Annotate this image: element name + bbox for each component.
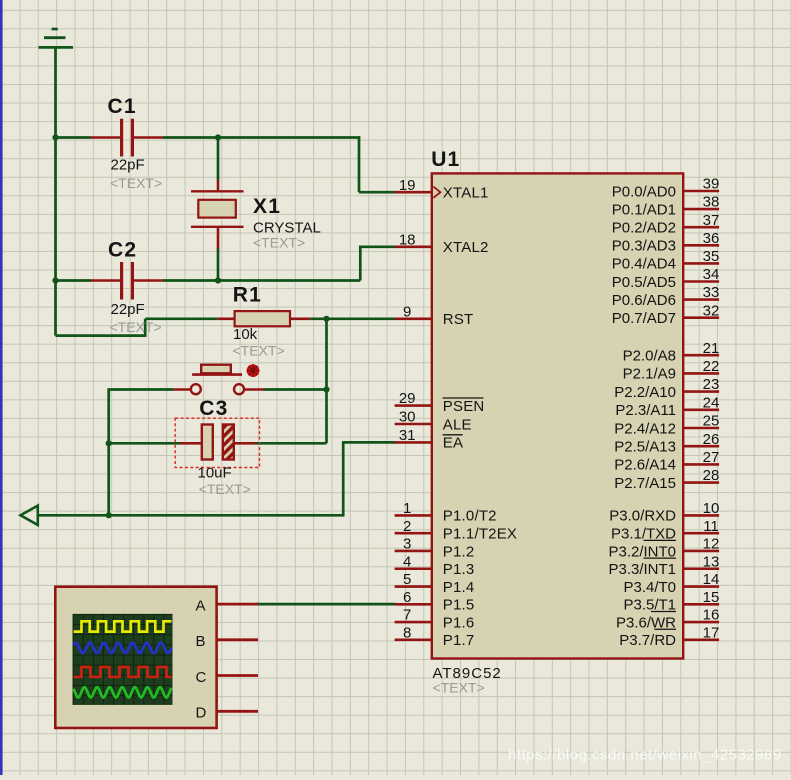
svg-text:36: 36 bbox=[703, 230, 720, 247]
capacitor C1 bbox=[91, 95, 164, 191]
svg-text:P0.1/AD1: P0.1/AD1 bbox=[612, 201, 676, 218]
pin 10 P3.0/RXD (right) bbox=[609, 500, 719, 525]
svg-text:D: D bbox=[196, 705, 207, 722]
wire: scope A to P1.5 pin 6 y=602.8 bbox=[256, 603, 396, 606]
pin 13 P3.3/INT1 (right) bbox=[608, 553, 719, 578]
svg-text:P0.7/AD7: P0.7/AD7 bbox=[612, 310, 676, 327]
svg-text:XTAL2: XTAL2 bbox=[443, 239, 489, 256]
pin 1 P1.0/T2 (left) bbox=[395, 500, 497, 525]
junction node (326.5,318.8) bbox=[323, 316, 329, 322]
pin 39 P0.0/AD0 (right) bbox=[612, 176, 720, 201]
push button bbox=[174, 364, 264, 394]
pin 14 P3.4/T0 (right) bbox=[623, 571, 719, 596]
pin 27 P2.6/A14 (right) bbox=[614, 449, 719, 474]
pin 17 P3.7/RD (right) bbox=[619, 624, 719, 649]
svg-text:22pF: 22pF bbox=[111, 157, 145, 174]
oscilloscope body bbox=[55, 587, 216, 728]
wire: ground elbow bottom y=335.6 bbox=[56, 334, 146, 337]
pin 11 P3.1/TXD (right) bbox=[611, 518, 719, 543]
svg-text:22pF: 22pF bbox=[111, 301, 145, 318]
svg-text:P1.7: P1.7 bbox=[443, 632, 475, 649]
svg-text:24: 24 bbox=[703, 394, 720, 411]
wire: XTAL1 vertical drop x=359 bbox=[358, 136, 361, 192]
pin 16 P3.6/WR (right) bbox=[616, 607, 719, 632]
pin 5 P1.4 (left) bbox=[395, 571, 475, 596]
scope trace channel B (blue sine) bbox=[74, 643, 172, 653]
svg-text:37: 37 bbox=[703, 212, 720, 229]
svg-text:P1.0/T2: P1.0/T2 bbox=[443, 508, 497, 525]
svg-text:10uF: 10uF bbox=[198, 464, 232, 481]
pin 3 P1.2 (left) bbox=[395, 536, 475, 561]
capacitor C2 bbox=[91, 239, 163, 335]
junction node (218,280.5) bbox=[215, 277, 221, 283]
svg-text:22: 22 bbox=[703, 358, 720, 375]
svg-text:P2.4/A12: P2.4/A12 bbox=[614, 420, 676, 437]
svg-text:1: 1 bbox=[403, 500, 411, 517]
svg-text:P2.3/A11: P2.3/A11 bbox=[615, 402, 676, 419]
wire: C1 row right segment to XTAL1 drop bbox=[163, 136, 360, 139]
pin 12 P3.2/INT0 (right) bbox=[608, 536, 719, 561]
svg-text:P2.5/A13: P2.5/A13 bbox=[614, 439, 676, 456]
scope trace channel D (green sine) bbox=[74, 687, 172, 697]
svg-text:P3.0/RXD: P3.0/RXD bbox=[609, 508, 676, 525]
svg-text:P1.6: P1.6 bbox=[443, 614, 475, 631]
op chip U1 body bbox=[432, 173, 683, 658]
svg-text:19: 19 bbox=[399, 177, 416, 194]
svg-text:27: 27 bbox=[703, 449, 720, 466]
svg-text:38: 38 bbox=[703, 194, 720, 211]
svg-text:C2: C2 bbox=[108, 239, 137, 262]
wire: ground elbow riser x=145.2 bbox=[144, 319, 147, 337]
pin 9 RST (left) bbox=[395, 303, 474, 328]
svg-text:26: 26 bbox=[703, 431, 720, 448]
svg-text:P1.2: P1.2 bbox=[443, 543, 475, 560]
resistor R1 bbox=[217, 283, 310, 358]
junction node (108.7,515.3) bbox=[106, 512, 112, 518]
svg-text:3: 3 bbox=[403, 536, 411, 553]
wire: RST junction to pin 9 bbox=[327, 317, 396, 320]
svg-text:35: 35 bbox=[703, 248, 720, 265]
svg-text:P0.6/AD6: P0.6/AD6 bbox=[612, 292, 676, 309]
svg-text:P2.7/A15: P2.7/A15 bbox=[614, 475, 676, 492]
wire: button left drop x=108.7 bbox=[107, 388, 110, 515]
pin 37 P0.2/AD2 (right) bbox=[612, 212, 720, 237]
wire: C3 right to RST vertical bbox=[255, 442, 327, 445]
wire: button row left segment y=389.5 bbox=[109, 388, 174, 391]
wire: RST net vertical x=326.5 bbox=[325, 319, 328, 444]
wire: ground stem x=55.5 bbox=[54, 47, 57, 335]
svg-text:15: 15 bbox=[703, 589, 720, 606]
blue sheet border (left edge) bbox=[0, 0, 3, 775]
svg-text:P2.2/A10: P2.2/A10 bbox=[614, 384, 676, 401]
svg-text:R1: R1 bbox=[233, 283, 262, 306]
svg-text:U1: U1 bbox=[431, 148, 460, 171]
ground terminal arrow (left) bbox=[21, 506, 38, 525]
svg-text:A: A bbox=[196, 598, 206, 615]
svg-text:ALE: ALE bbox=[443, 416, 472, 433]
scope pin A bbox=[196, 598, 259, 615]
svg-text:RST: RST bbox=[443, 311, 474, 328]
svg-text:C1: C1 bbox=[108, 95, 137, 118]
svg-text:P0.2/AD2: P0.2/AD2 bbox=[612, 220, 676, 237]
svg-text:P1.5: P1.5 bbox=[443, 597, 475, 614]
wire: XTAL2 riser x=360 bbox=[359, 247, 362, 281]
svg-text:P1.3: P1.3 bbox=[443, 561, 475, 578]
pin 23 P2.2/A10 (right) bbox=[614, 376, 719, 401]
svg-text:18: 18 bbox=[399, 231, 416, 248]
svg-text:17: 17 bbox=[703, 624, 720, 641]
svg-text:31: 31 bbox=[399, 427, 416, 444]
pin 24 P2.3/A11 (right) bbox=[615, 394, 719, 419]
svg-text:33: 33 bbox=[703, 284, 720, 301]
svg-text:P3.3/INT1: P3.3/INT1 bbox=[608, 561, 676, 578]
svg-text:P0.4/AD4: P0.4/AD4 bbox=[612, 256, 676, 273]
svg-text:10: 10 bbox=[703, 500, 720, 517]
svg-text:28: 28 bbox=[703, 467, 720, 484]
pin 33 P0.6/AD6 (right) bbox=[612, 284, 720, 309]
pin 34 P0.5/AD5 (right) bbox=[612, 266, 720, 291]
capacitor C3 (electrolytic, selected) bbox=[175, 397, 259, 497]
wire: EA drop x=343.2 bbox=[342, 441, 345, 515]
svg-text:P2.6/A14: P2.6/A14 bbox=[614, 457, 676, 474]
scope pin D bbox=[196, 705, 259, 722]
wire: X1 bottom branch x=218 bbox=[217, 248, 220, 282]
svg-text:10k: 10k bbox=[233, 326, 258, 343]
svg-text:32: 32 bbox=[703, 302, 720, 319]
svg-text:12: 12 bbox=[703, 536, 720, 553]
svg-text:<TEXT>: <TEXT> bbox=[199, 481, 251, 497]
svg-text:EA: EA bbox=[443, 435, 463, 452]
svg-text:X1: X1 bbox=[253, 195, 281, 218]
pin 2 P1.1/T2EX (left) bbox=[395, 518, 518, 543]
svg-text:8: 8 bbox=[403, 624, 411, 641]
pin 6 P1.5 (left) bbox=[395, 589, 475, 614]
svg-text:C3: C3 bbox=[199, 397, 228, 420]
wire: EA horizontal into pin 31 y=441.8 bbox=[343, 441, 395, 444]
svg-text:<TEXT>: <TEXT> bbox=[253, 234, 305, 250]
svg-text:16: 16 bbox=[703, 607, 720, 624]
svg-text:39: 39 bbox=[703, 176, 720, 193]
svg-text:11: 11 bbox=[703, 518, 719, 535]
wire: button row right segment to RST vertical bbox=[264, 388, 327, 391]
svg-text:2: 2 bbox=[403, 518, 411, 535]
ground symbol (top left) bbox=[39, 29, 74, 47]
pin 35 P0.4/AD4 (right) bbox=[612, 248, 720, 273]
wire: XTAL2 horizontal into pin 18 bbox=[359, 245, 396, 248]
wire: C1 row y=137.5 (C1 left segment) bbox=[54, 136, 90, 139]
junction node (55.5,137.5) bbox=[52, 134, 58, 140]
junction node (218,137.5) bbox=[215, 134, 221, 140]
svg-text:P0.0/AD0: P0.0/AD0 bbox=[612, 183, 676, 200]
svg-text:P3.4/T0: P3.4/T0 bbox=[623, 579, 676, 596]
junction node (108.7,443.3) bbox=[106, 440, 112, 446]
svg-text:P2.0/A8: P2.0/A8 bbox=[623, 348, 676, 365]
svg-text:14: 14 bbox=[703, 571, 720, 588]
svg-text:P3.7/RD: P3.7/RD bbox=[619, 632, 676, 649]
svg-text:P0.3/AD3: P0.3/AD3 bbox=[612, 238, 676, 255]
scope trace channel C (red square) bbox=[74, 667, 172, 677]
scope pin B bbox=[196, 633, 259, 650]
pin 36 P0.3/AD3 (right) bbox=[612, 230, 720, 255]
pin 38 P0.1/AD1 (right) bbox=[612, 194, 720, 219]
svg-text:29: 29 bbox=[399, 390, 416, 407]
svg-text:23: 23 bbox=[703, 376, 720, 393]
svg-text:C: C bbox=[196, 669, 207, 686]
svg-text:9: 9 bbox=[403, 303, 411, 320]
wire: R1 row left segment y=318.3 bbox=[145, 317, 217, 320]
svg-text:B: B bbox=[196, 633, 206, 650]
pin 22 P2.1/A9 (right) bbox=[623, 358, 720, 383]
svg-text:5: 5 bbox=[403, 571, 411, 588]
svg-text:<TEXT>: <TEXT> bbox=[433, 679, 485, 695]
svg-text:P1.4: P1.4 bbox=[443, 579, 475, 596]
svg-text:7: 7 bbox=[403, 607, 411, 624]
pin 29 PSEN (left) bbox=[395, 390, 485, 415]
pin 4 P1.3 (left) bbox=[395, 553, 475, 578]
pin 30 ALE (left) bbox=[395, 409, 472, 434]
pin 32 P0.7/AD7 (right) bbox=[612, 302, 720, 327]
svg-text:21: 21 bbox=[703, 340, 720, 357]
scope pin C bbox=[196, 669, 259, 686]
svg-text:<TEXT>: <TEXT> bbox=[110, 319, 162, 335]
pin 15 P3.5/T1 (right) bbox=[623, 589, 719, 614]
svg-text:13: 13 bbox=[703, 553, 720, 570]
svg-text:P1.1/T2EX: P1.1/T2EX bbox=[443, 525, 517, 542]
svg-text:25: 25 bbox=[703, 413, 720, 430]
pin 31 EA (left) bbox=[395, 427, 464, 452]
pin 25 P2.4/A12 (right) bbox=[614, 413, 719, 438]
svg-text:4: 4 bbox=[403, 553, 411, 570]
crystal X1 bbox=[191, 180, 321, 250]
wire: C2 row right segment to XTAL2 riser bbox=[163, 279, 360, 282]
junction node (55.5,280.5) bbox=[52, 277, 58, 283]
pin 19 XTAL1 (left) bbox=[395, 177, 489, 202]
wire: ground rail y=515.3 to terminal arrow bbox=[38, 514, 345, 517]
scope trace channel A (yellow square) bbox=[74, 621, 172, 631]
wire: C3 row y=443.5 bbox=[109, 442, 180, 445]
svg-text:34: 34 bbox=[703, 266, 720, 283]
svg-text:P0.5/AD5: P0.5/AD5 bbox=[612, 274, 676, 291]
svg-text:https://blog.csdn.net/weixin_4: https://blog.csdn.net/weixin_42532989 bbox=[508, 747, 782, 764]
svg-text:<TEXT>: <TEXT> bbox=[110, 175, 162, 191]
junction node (326.5,389.5) bbox=[323, 386, 329, 392]
svg-text:P2.1/A9: P2.1/A9 bbox=[623, 366, 676, 383]
pin 8 P1.7 (left) bbox=[395, 624, 475, 649]
pin 21 P2.0/A8 (right) bbox=[623, 340, 720, 365]
pin 26 P2.5/A13 (right) bbox=[614, 431, 719, 456]
wire: R1 right to RST junction bbox=[310, 317, 326, 320]
svg-text:30: 30 bbox=[399, 409, 416, 426]
pin 7 P1.6 (left) bbox=[395, 607, 475, 632]
pin 18 XTAL2 (left) bbox=[395, 231, 489, 256]
pin 28 P2.7/A15 (right) bbox=[614, 467, 719, 492]
oscilloscope screen bbox=[73, 614, 173, 705]
svg-text:<TEXT>: <TEXT> bbox=[233, 342, 285, 358]
svg-text:XTAL1: XTAL1 bbox=[443, 185, 489, 202]
wire: C2 row y=280.5 (left segment) bbox=[54, 279, 91, 282]
svg-text:PSEN: PSEN bbox=[443, 398, 485, 415]
svg-text:6: 6 bbox=[403, 589, 411, 606]
wire: XTAL1 horizontal into pin 19 bbox=[359, 191, 396, 194]
wire: X1 top branch x=218 bbox=[217, 138, 220, 181]
